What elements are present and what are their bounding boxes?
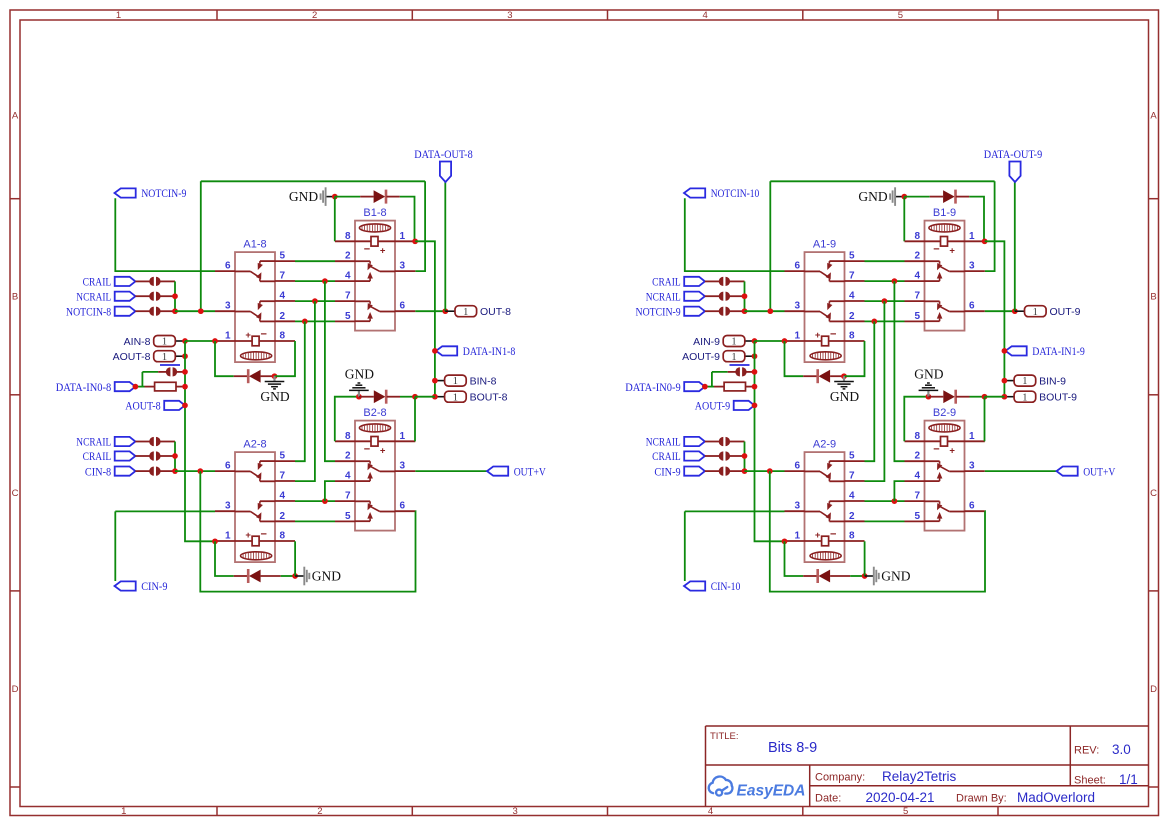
svg-text:6: 6	[794, 461, 800, 472]
svg-text:2: 2	[345, 251, 351, 262]
wire diode to A1-8 pin 8	[275, 341, 296, 376]
wire diode to coil pin 1	[970, 396, 985, 398]
svg-text:3: 3	[507, 10, 512, 21]
junction	[767, 468, 773, 474]
wire CIN-8 to A2-8 pin 6	[175, 470, 215, 472]
svg-text:5: 5	[280, 251, 286, 262]
wire rail column	[174, 442, 176, 472]
svg-text:GND: GND	[858, 189, 887, 204]
net flag CIN-10	[684, 579, 740, 593]
wire riser to B2-8 pin 4	[325, 481, 335, 501]
junction	[302, 319, 308, 325]
junction	[272, 373, 278, 379]
net port BIN-9	[1004, 375, 1066, 387]
junction	[322, 498, 328, 504]
net flag CIN-8	[85, 464, 136, 478]
svg-text:1: 1	[731, 337, 736, 348]
ground flag (coil A2-8)	[295, 567, 341, 586]
relay B1-9	[905, 207, 985, 331]
flyback diode (B2-8 coil)	[374, 390, 388, 404]
wire CIN-9 to A2-9 pin 6	[745, 470, 785, 472]
svg-text:3: 3	[794, 301, 800, 312]
wire rail column	[744, 281, 746, 311]
junction	[982, 394, 988, 400]
net label marker	[730, 364, 750, 366]
svg-text:DATA-OUT-9: DATA-OUT-9	[984, 147, 1042, 161]
flyback diode (B2-9 coil)	[943, 390, 957, 404]
svg-text:NCRAIL: NCRAIL	[76, 289, 111, 303]
svg-text:A2-8: A2-8	[243, 439, 266, 451]
flyback diode (B1-9 coil)	[943, 190, 957, 204]
net flag NCRAIL	[76, 289, 135, 303]
wire A1-8.2 - B1-8.5	[295, 320, 335, 322]
svg-text:8: 8	[280, 331, 286, 342]
svg-text:2: 2	[345, 451, 351, 462]
svg-text:3: 3	[969, 461, 975, 472]
svg-text:1: 1	[225, 331, 231, 342]
svg-text:GND: GND	[312, 569, 341, 584]
net flag CRAIL	[83, 275, 136, 289]
ferrite bead (NCRAIL)	[719, 292, 730, 301]
svg-text:+: +	[380, 245, 386, 256]
svg-text:AOUT-9: AOUT-9	[682, 351, 720, 363]
wire to bead	[142, 371, 158, 373]
wire to B2-9 pin 1	[984, 397, 986, 442]
svg-text:Company:: Company:	[815, 772, 865, 784]
svg-text:4: 4	[345, 471, 351, 482]
wire riser to A2-9 pin 7	[865, 301, 885, 481]
junction	[322, 278, 328, 284]
svg-text:4: 4	[280, 291, 286, 302]
junction	[172, 308, 178, 314]
junction	[133, 384, 139, 390]
wire riser to A2-8 pin 5	[295, 321, 305, 461]
ferrite bead (NOTCIN-9)	[719, 307, 730, 316]
svg-text:NOTCIN-9: NOTCIN-9	[141, 186, 186, 200]
wire net NOTCIN-8 top rail	[201, 180, 425, 182]
flyback diode (A1-9 coil)	[816, 369, 830, 383]
svg-text:1/1: 1/1	[1119, 772, 1138, 787]
svg-text:NOTCIN-8: NOTCIN-8	[66, 304, 111, 318]
wire A2-8 pin 1 to diode	[215, 541, 234, 576]
junction	[752, 353, 758, 359]
svg-text:5: 5	[914, 511, 920, 522]
svg-text:4: 4	[280, 491, 286, 502]
wire diode cathode to coil pin 1	[969, 197, 984, 242]
svg-text:A2-9: A2-9	[813, 439, 836, 451]
svg-text:−: −	[260, 528, 266, 540]
svg-text:CIN-10: CIN-10	[711, 579, 741, 593]
svg-text:4: 4	[708, 806, 713, 817]
svg-text:2020-04-21: 2020-04-21	[866, 790, 935, 805]
junction	[172, 293, 178, 299]
svg-text:8: 8	[345, 231, 351, 242]
net port AIN-9	[693, 336, 754, 348]
svg-text:7: 7	[280, 471, 286, 482]
net flag DATA-IN1-8	[436, 344, 515, 358]
svg-text:Relay2Tetris: Relay2Tetris	[882, 769, 957, 784]
net flag NOTCIN-9	[636, 304, 705, 318]
net port BIN-8	[435, 375, 497, 387]
svg-text:D: D	[12, 684, 19, 695]
flyback diode (A1-8 coil)	[247, 369, 261, 383]
wire A1-8.7 - B1-8.4	[295, 280, 335, 282]
svg-text:OUT-9: OUT-9	[1050, 306, 1081, 318]
relay A2-9	[785, 439, 865, 562]
junction	[752, 403, 758, 409]
relay B1-8	[335, 207, 415, 331]
net port OUT-8	[445, 306, 511, 318]
junction	[742, 293, 748, 299]
svg-text:1: 1	[400, 431, 406, 442]
svg-text:1: 1	[453, 376, 458, 387]
svg-text:3: 3	[225, 301, 231, 312]
relay A1-9	[785, 239, 865, 363]
net flag AOUT-8	[125, 399, 185, 413]
svg-text:OUT+V: OUT+V	[514, 464, 546, 478]
junction	[767, 308, 773, 314]
svg-text:Sheet:: Sheet:	[1074, 775, 1106, 787]
ground flag (coil B1-9)	[858, 187, 904, 206]
wire riser to B1-8 pin 3	[415, 181, 425, 271]
svg-text:+: +	[815, 330, 821, 341]
svg-text:BOUT-9: BOUT-9	[1039, 392, 1077, 404]
junction	[1002, 378, 1008, 384]
junction	[197, 468, 203, 474]
junction	[182, 369, 188, 375]
net flag CIN-9	[654, 464, 705, 478]
wire A1-8.4 - B1-8.7	[295, 300, 335, 302]
svg-text:EasyEDA: EasyEDA	[737, 783, 806, 800]
svg-text:B: B	[12, 292, 18, 303]
svg-text:1: 1	[731, 352, 736, 363]
wire A1-8 pin 1 to diode	[215, 341, 234, 376]
svg-text:4: 4	[849, 291, 855, 302]
junction	[1002, 348, 1008, 354]
junction	[1002, 394, 1008, 400]
junction GND/B1-8 pin 8	[332, 194, 338, 200]
net flag OUT+V	[1057, 464, 1116, 478]
svg-text:2: 2	[280, 311, 286, 322]
svg-text:4: 4	[914, 271, 920, 282]
svg-text:MadOverlord: MadOverlord	[1017, 790, 1095, 805]
wire GND to coil pin 8	[903, 197, 905, 242]
wire riser to B2-8 pin 2	[325, 281, 335, 461]
svg-text:7: 7	[914, 291, 920, 302]
svg-text:2: 2	[849, 511, 855, 522]
wire riser to NOTCIN-9 row	[769, 181, 771, 311]
net flag CRAIL	[83, 449, 136, 463]
wire bottom rail to B2-8 pin 6	[200, 471, 415, 591]
junction	[412, 394, 418, 400]
svg-text:3: 3	[794, 501, 800, 512]
ground (B2-9 coil)	[914, 366, 943, 396]
svg-text:NCRAIL: NCRAIL	[646, 435, 681, 449]
svg-text:2: 2	[280, 511, 286, 522]
svg-text:+: +	[949, 245, 955, 256]
wire DATA-OUT-9 stem	[1014, 182, 1016, 311]
wire B1-9 pin 6 to OUT-9	[985, 310, 1015, 312]
wire A1-9 pin 1 to diode	[785, 341, 804, 376]
wire DATA-OUT-8 stem	[444, 182, 446, 311]
svg-text:2: 2	[914, 451, 920, 462]
svg-text:6: 6	[225, 461, 231, 472]
svg-text:4: 4	[914, 471, 920, 482]
wire CIN-9 stem	[114, 511, 116, 581]
svg-text:+: +	[949, 445, 955, 456]
wire A1-9.7 - B1-9.4	[865, 280, 905, 282]
wire AOUT-8 column to A2-8 pin 1	[185, 341, 215, 541]
wire NOTCIN-10 to A1-9 pin 6	[685, 198, 785, 271]
ground (A1-9 coil)	[830, 376, 859, 404]
junction	[432, 378, 438, 384]
junction	[752, 384, 758, 390]
wire NOTCIN-8 to A1-8 pin 3	[175, 310, 215, 312]
junction	[782, 338, 788, 344]
wire rail column	[174, 281, 176, 311]
wire riser to B2-9 pin 4	[894, 481, 904, 501]
net flag NCRAIL	[76, 435, 135, 449]
svg-text:5: 5	[914, 311, 920, 322]
net flag NCRAIL	[646, 435, 705, 449]
junction	[292, 573, 298, 579]
net port AOUT-9	[682, 351, 754, 363]
svg-text:5: 5	[345, 511, 351, 522]
junction	[742, 308, 748, 314]
relay B2-9	[905, 407, 985, 530]
wire OUT+V	[415, 470, 487, 472]
net flag DATA-OUT-9	[984, 147, 1042, 182]
net port AIN-8	[124, 336, 185, 348]
wire GND to diode anode	[904, 196, 929, 198]
flyback diode (B1-8 coil)	[374, 190, 388, 204]
svg-text:4: 4	[849, 491, 855, 502]
wire A2-8 pin 8 to GND	[294, 541, 296, 576]
svg-text:8: 8	[914, 231, 920, 242]
net flag OUT+V	[487, 464, 546, 478]
svg-text:CRAIL: CRAIL	[652, 275, 681, 289]
resistor (DATA-IN0-8)	[155, 382, 176, 391]
svg-text:A: A	[1150, 110, 1157, 121]
net port BOUT-9	[1004, 391, 1077, 403]
svg-text:+: +	[245, 530, 251, 541]
svg-text:2: 2	[312, 10, 317, 21]
wire B2-8 pin 8 loop	[335, 397, 359, 442]
svg-text:5: 5	[849, 451, 855, 462]
flyback diode (A2-9 coil)	[816, 569, 830, 583]
svg-text:AOUT-8: AOUT-8	[113, 351, 151, 363]
svg-text:1: 1	[463, 307, 468, 318]
svg-text:7: 7	[345, 491, 351, 502]
svg-text:CRAIL: CRAIL	[652, 449, 681, 463]
net flag NCRAIL	[646, 289, 705, 303]
svg-text:8: 8	[280, 531, 286, 542]
net label marker	[160, 364, 180, 366]
svg-text:5: 5	[345, 311, 351, 322]
net flag DATA-IN0-9	[625, 380, 705, 394]
svg-text:BIN-8: BIN-8	[470, 375, 497, 387]
svg-text:REV:: REV:	[1074, 745, 1099, 757]
ferrite bead (NCRAIL)	[719, 437, 730, 446]
wire GND to diode anode	[335, 196, 360, 198]
ferrite bead (CIN-8)	[149, 467, 160, 476]
wire A1-9.5 - B1-9.2	[865, 260, 905, 262]
svg-text:CIN-8: CIN-8	[85, 464, 111, 478]
net flag CIN-9	[115, 579, 168, 593]
svg-text:1: 1	[1022, 392, 1027, 403]
svg-text:NOTCIN-9: NOTCIN-9	[636, 304, 681, 318]
svg-text:1: 1	[794, 331, 800, 342]
flyback diode (A2-8 coil)	[247, 569, 261, 583]
junction	[432, 394, 438, 400]
wire A1-9.4 - B1-9.7	[865, 300, 905, 302]
wire B2-9 pin 8 loop	[904, 397, 928, 442]
ground flag (coil B1-8)	[289, 187, 335, 206]
junction	[841, 373, 847, 379]
svg-text:1: 1	[794, 531, 800, 542]
junction	[412, 238, 418, 244]
svg-text:5: 5	[898, 10, 903, 21]
svg-text:3: 3	[400, 461, 406, 472]
wire to BOUT junction	[415, 396, 435, 398]
wire diode to coil pin 1	[400, 396, 415, 398]
junction	[182, 338, 188, 344]
net flag DATA-IN0-8	[56, 380, 136, 394]
svg-text:2: 2	[914, 251, 920, 262]
svg-text:GND: GND	[830, 389, 859, 404]
wire B1-8 pin 6 to OUT-8	[415, 310, 445, 312]
net flag NOTCIN-10	[684, 186, 759, 200]
net flag CRAIL	[652, 275, 705, 289]
svg-text:−: −	[933, 444, 939, 456]
junction	[782, 538, 788, 544]
ferrite bead (CRAIL)	[719, 277, 730, 286]
svg-text:GND: GND	[260, 389, 289, 404]
svg-text:GND: GND	[345, 366, 374, 381]
svg-text:BOUT-8: BOUT-8	[470, 392, 508, 404]
svg-text:B1-9: B1-9	[933, 207, 956, 219]
svg-text:6: 6	[400, 301, 406, 312]
wire A2-9.4 - B2-9.7	[865, 500, 905, 502]
wire bead to flag row	[141, 372, 143, 387]
net port OUT-9	[1015, 306, 1081, 318]
wire AIN-8 to A1-8 pin 1	[185, 340, 215, 342]
svg-text:AIN-8: AIN-8	[124, 336, 151, 348]
svg-text:1: 1	[453, 392, 458, 403]
svg-text:5: 5	[280, 451, 286, 462]
svg-text:−: −	[830, 528, 836, 540]
junction	[752, 338, 758, 344]
svg-text:C: C	[12, 488, 19, 499]
svg-text:1: 1	[969, 231, 975, 242]
svg-text:7: 7	[280, 271, 286, 282]
svg-text:B2-9: B2-9	[933, 407, 956, 419]
svg-text:D: D	[1150, 684, 1157, 695]
wire to BOUT junction	[985, 396, 1005, 398]
wire flag to resistor	[135, 386, 144, 388]
junction	[182, 353, 188, 359]
junction	[982, 238, 988, 244]
junction	[356, 394, 362, 400]
svg-text:CIN-9: CIN-9	[654, 464, 680, 478]
junction	[182, 403, 188, 409]
svg-text:−: −	[830, 328, 836, 340]
svg-text:1: 1	[1033, 307, 1038, 318]
net flag AOUT-9	[695, 399, 755, 413]
svg-text:1: 1	[969, 431, 975, 442]
svg-text:3.0: 3.0	[1112, 742, 1131, 757]
ferrite bead (NCRAIL)	[149, 292, 160, 301]
junction	[892, 498, 898, 504]
svg-text:7: 7	[849, 471, 855, 482]
junction	[871, 319, 877, 325]
wire A1-9.2 - B1-9.5	[865, 320, 905, 322]
wire CIN-10 stem	[684, 511, 686, 581]
svg-text:CIN-9: CIN-9	[141, 579, 167, 593]
ground (A1-8 coil)	[260, 376, 289, 404]
svg-text:−: −	[364, 244, 370, 256]
wire NOTCIN-9 to A1-9 pin 3	[745, 310, 785, 312]
wire to bead	[712, 371, 728, 373]
net flag DATA-IN1-9	[1006, 344, 1085, 358]
relay B2-8	[335, 407, 415, 530]
svg-text:1: 1	[225, 531, 231, 542]
svg-text:1: 1	[400, 231, 406, 242]
wire diode to GND	[850, 575, 864, 577]
svg-text:6: 6	[225, 261, 231, 272]
junction	[182, 384, 188, 390]
wire diode to GND	[281, 575, 295, 577]
wire A2-9 pin 1 to diode	[785, 541, 804, 576]
wire riser to NOTCIN-8 row	[200, 181, 202, 311]
svg-text:C: C	[1150, 488, 1157, 499]
wire riser to B2-9 pin 2	[894, 281, 904, 461]
svg-text:Date:: Date:	[815, 793, 841, 805]
svg-text:6: 6	[969, 301, 975, 312]
junction	[926, 394, 932, 400]
wire A2-9 pin 8 to GND	[864, 541, 866, 576]
svg-text:Bits 8-9: Bits 8-9	[768, 740, 817, 756]
junction	[212, 338, 218, 344]
wire to B2-8 pin 1	[414, 397, 416, 442]
ferrite bead (NCRAIL)	[149, 437, 160, 446]
ferrite bead (CRAIL)	[149, 451, 160, 460]
wire flag to resistor	[705, 386, 714, 388]
svg-text:CRAIL: CRAIL	[83, 449, 112, 463]
wire GND to coil pin 8	[334, 197, 336, 242]
junction	[1012, 308, 1018, 314]
wire diode to A1-9 pin 8	[844, 341, 865, 376]
ground (B2-8 coil)	[345, 366, 374, 396]
svg-text:7: 7	[345, 291, 351, 302]
svg-text:6: 6	[400, 501, 406, 512]
ferrite bead (CRAIL)	[149, 277, 160, 286]
svg-text:5: 5	[903, 806, 908, 817]
junction	[742, 453, 748, 459]
wire riser to A2-8 pin 7	[295, 301, 315, 481]
wire AIN-9 to A1-9 pin 1	[755, 340, 785, 342]
svg-text:3: 3	[400, 261, 406, 272]
junction	[892, 278, 898, 284]
wire bottom rail to B2-9 pin 6	[770, 471, 985, 591]
svg-text:6: 6	[794, 261, 800, 272]
relay A1-8	[215, 239, 295, 363]
wire B1-8 pin 1 column	[415, 241, 435, 396]
wire diode cathode to coil pin 1	[400, 197, 415, 242]
svg-text:DATA-IN0-9: DATA-IN0-9	[625, 380, 681, 394]
svg-text:A1-9: A1-9	[813, 239, 836, 251]
wire net NOTCIN-9 top rail	[770, 180, 994, 182]
